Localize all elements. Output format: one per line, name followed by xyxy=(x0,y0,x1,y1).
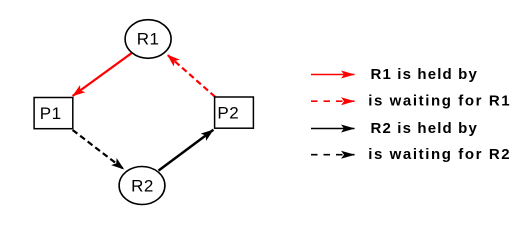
svg-text:is waiting for R2: is waiting for R2 xyxy=(368,146,511,163)
svg-text:R2 is held by: R2 is held by xyxy=(371,120,478,137)
svg-text:P2: P2 xyxy=(217,104,239,123)
svg-text:P1: P1 xyxy=(40,104,62,123)
node R1 xyxy=(125,20,171,59)
legend arrow red solid xyxy=(311,74,355,76)
svg-text:is waiting for R1: is waiting for R1 xyxy=(368,93,511,110)
wire: red dashed edge P2 to R1 xyxy=(167,55,215,97)
svg-text:R1: R1 xyxy=(137,29,160,48)
legend arrow black solid xyxy=(311,128,355,130)
node R2 xyxy=(119,167,165,205)
wire: black dashed edge P1 to R2 xyxy=(73,130,124,169)
node P1 xyxy=(34,98,73,129)
svg-text:R1 is held by: R1 is held by xyxy=(371,66,478,83)
legend arrow black dashed xyxy=(311,154,355,156)
node P2 xyxy=(215,97,254,128)
legend arrow red dashed xyxy=(311,100,355,102)
svg-text:R2: R2 xyxy=(131,176,154,195)
wire: black solid edge R2 to P2 xyxy=(159,130,214,171)
wire: red solid edge R1 to P1 xyxy=(73,53,132,96)
